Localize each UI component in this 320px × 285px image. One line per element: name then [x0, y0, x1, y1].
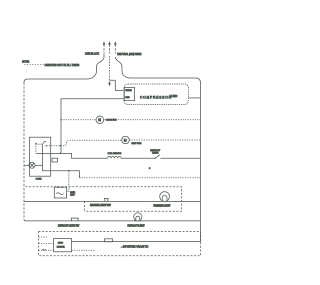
svg-text:AUTO: AUTO	[58, 241, 64, 244]
svg-text:L1 RED: L1 RED	[170, 96, 178, 98]
dotted wire to bus	[79, 177, 200, 179]
svg-text:M: M	[98, 118, 101, 122]
dotted feeds to ice maker	[39, 242, 54, 244]
wire: compressor run (RED) to thermostat	[61, 99, 124, 154]
svg-text:MASTER LIGHT SW: MASTER LIGHT SW	[90, 204, 111, 207]
wire: right bus vertical (neutral)	[200, 83, 202, 242]
wire: neutral stub down to relay WHITE terminal	[110, 80, 125, 90]
svg-text:CONT.: CONT.	[36, 179, 43, 181]
svg-text:FREEZER LIGHT: FREEZER LIGHT	[154, 205, 172, 207]
svg-text:EVAP FAN: EVAP FAN	[132, 142, 142, 145]
dotted stub right of ice maker	[72, 249, 95, 251]
svg-text:DEFROST: DEFROST	[150, 150, 161, 152]
defrost limit box	[54, 186, 75, 198]
ice maker dashed box	[39, 232, 201, 256]
compressor housing (dashed rounded box)	[124, 84, 189, 105]
wire bus to pilot light	[24, 164, 29, 166]
dashed drop to defrost limit box	[67, 171, 69, 192]
master light line	[24, 192, 201, 208]
condenser fan motor	[61, 116, 201, 124]
svg-text:M: M	[124, 138, 127, 142]
wire: compressor to right bus	[189, 97, 201, 99]
wire to pilot light	[35, 164, 43, 166]
thermostat (cold control) box	[30, 137, 51, 176]
light switch contacts	[71, 218, 79, 221]
defrost heater line with resistor and timer switch	[36, 150, 201, 170]
svg-text:NOTE:: NOTE:	[22, 61, 29, 64]
thermostat internal wire	[43, 144, 51, 171]
junction dot	[60, 119, 61, 120]
resistor zigzag	[108, 156, 122, 158]
evaporator fan motor	[46, 136, 200, 146]
thermostat switch contact	[43, 141, 47, 143]
svg-text:DEFROST LIGHT SW: DEFROST LIGHT SW	[58, 226, 80, 228]
label connector	[42, 249, 46, 251]
svg-text:RED: RED	[125, 97, 130, 99]
defrost light bulb	[134, 213, 142, 221]
plug prong left (line black)	[103, 41, 106, 53]
wire thermostat to corner	[51, 171, 80, 178]
wire: left bus vertical (hot)	[23, 83, 25, 220]
svg-text:WHITE: WHITE	[125, 90, 132, 92]
svg-text:COMPRESSOR: COMPRESSOR	[140, 96, 172, 100]
svg-text:COND FAN: COND FAN	[106, 119, 117, 122]
svg-text:5: 5	[149, 168, 151, 170]
connector block	[52, 158, 58, 162]
terminal block on valve line	[105, 239, 113, 242]
svg-text:ICE MKR: ICE MKR	[57, 246, 65, 248]
wire: right prong branch to right bus	[115, 57, 200, 83]
svg-text:LINE BLACK: LINE BLACK	[85, 53, 99, 56]
ice maker box	[54, 239, 72, 252]
refrigerator light line	[24, 213, 201, 228]
svg-text:COIL SENSOR: COIL SENSOR	[108, 153, 122, 155]
freezer compartment dashed border	[26, 187, 182, 211]
ground wire (dashed) with arrow	[108, 56, 111, 86]
svg-text:LIMIT: LIMIT	[70, 195, 75, 197]
svg-text:DEFR: DEFR	[70, 192, 75, 194]
freezer light bulb	[160, 192, 170, 202]
wire: left prong to left bus	[24, 54, 104, 83]
pilot light (circle-X)	[29, 162, 35, 168]
relay box	[124, 87, 134, 100]
compartment dashed drop	[84, 201, 86, 211]
thermostat internal dashed wires	[35, 144, 37, 154]
svg-text:DEFROST LIGHT: DEFROST LIGHT	[128, 226, 146, 228]
svg-text:→IN WATER VALVE TB: →IN WATER VALVE TB	[121, 245, 149, 249]
light switch contacts	[104, 198, 109, 201]
svg-text:NEUTRAL (GN) WIRE: NEUTRAL (GN) WIRE	[117, 53, 141, 56]
svg-text:DENOTES HOT AT ALL TIMES: DENOTES HOT AT ALL TIMES	[45, 64, 80, 67]
wire ice maker to bus	[72, 241, 201, 243]
plug prong right	[114, 41, 117, 53]
plug prong middle (neutral/ground)	[108, 41, 111, 53]
svg-text:TIMER: TIMER	[152, 153, 159, 155]
timer switch contact	[155, 158, 156, 159]
